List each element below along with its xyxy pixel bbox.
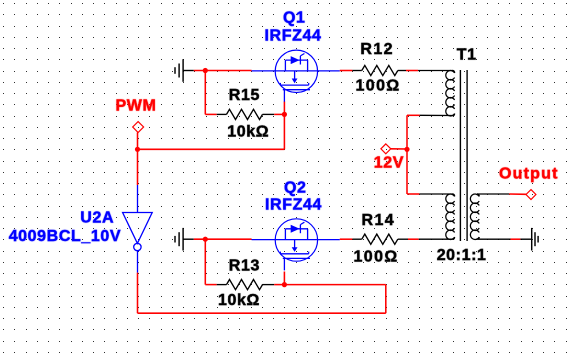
- transformer T1: [446, 70, 479, 241]
- ground (Q2 source): [175, 228, 194, 251]
- svg-text:Q2: Q2: [284, 179, 307, 196]
- wire: down to R15: [204, 71, 206, 115]
- wire: R14 to T1 winding2 bottom: [408, 238, 419, 240]
- resistor R14: [352, 234, 408, 244]
- svg-text:IRFZ44: IRFZ44: [265, 27, 322, 44]
- svg-text:100Ω: 100Ω: [354, 248, 399, 265]
- wire: R15 left: [205, 113, 216, 115]
- transistor Q2: [252, 219, 340, 271]
- wire: gate of Q1 to junction: [283, 102, 285, 115]
- wire: junction down to PWM row: [283, 114, 285, 149]
- resistor R12: [352, 65, 406, 75]
- svg-text:Q1: Q1: [283, 9, 306, 26]
- wire: ground to Q2 source: [194, 238, 252, 240]
- wire: 12V vertical: [406, 115, 408, 194]
- svg-text:PWM: PWM: [116, 97, 157, 114]
- wire: R13 row horizontal: [284, 284, 385, 286]
- lead: T1 winding2 top: [419, 193, 452, 195]
- wire: ground to Q1 source: [194, 70, 252, 72]
- svg-text:Output: Output: [499, 166, 559, 183]
- svg-text:U2A: U2A: [80, 209, 114, 226]
- wire: 12V row to winding 2: [407, 193, 419, 195]
- op-amp U2A (inverter 4009BCL_10V): [123, 213, 153, 273]
- connector: Output diamond: [526, 190, 536, 200]
- wire: secondary bottom to ground: [511, 238, 521, 240]
- svg-text:R14: R14: [362, 212, 396, 229]
- svg-text:20:1:1: 20:1:1: [437, 247, 487, 264]
- svg-text:R12: R12: [360, 41, 394, 58]
- junction: R15/gate node (284.4,114.4): [282, 112, 287, 117]
- lead: T1 primary bottom: [420, 114, 453, 116]
- svg-text:12V: 12V: [374, 154, 404, 171]
- lead: secondary top: [477, 193, 509, 195]
- transistor Q1: [252, 50, 340, 102]
- wire: bottom horizontal: [138, 312, 386, 314]
- wire: primary bottom red stub: [407, 114, 420, 116]
- wire: PWM down to inverter input: [137, 149, 139, 185]
- svg-text:IRFZ44: IRFZ44: [265, 196, 322, 213]
- connector: 12V diamond: [381, 144, 407, 154]
- wire: secondary to Output: [509, 193, 526, 195]
- junction: 12V tap (407,149.3): [404, 147, 409, 152]
- svg-text:10kΩ: 10kΩ: [218, 292, 260, 309]
- junction: PWM node (137.5,149.3): [135, 147, 140, 152]
- connector: PWM diamond: [133, 122, 144, 150]
- lead: T1 winding2 bottom: [419, 238, 453, 240]
- junction: R13/gate node (284.4,284.6): [282, 282, 287, 287]
- wire: Q2 gate to junction: [283, 272, 285, 285]
- svg-text:R13: R13: [229, 257, 260, 274]
- wire: R15 right: [274, 113, 284, 115]
- resistor R13: [217, 280, 275, 290]
- wire: up to R13 row: [385, 285, 387, 314]
- wire: R12 to T1 primary top: [406, 70, 418, 72]
- svg-text:4009BCL_10V: 4009BCL_10V: [9, 228, 121, 245]
- wire: R13 right: [274, 284, 284, 286]
- wire: R13 left: [205, 284, 216, 286]
- lead: secondary bottom: [477, 238, 510, 240]
- svg-text:10kΩ: 10kΩ: [227, 124, 269, 141]
- ground (secondary right): [520, 228, 538, 251]
- resistor R15: [217, 109, 275, 119]
- svg-text:100Ω: 100Ω: [356, 77, 401, 94]
- lead: inverter input: [137, 185, 139, 213]
- ground (top-left, Q1 source): [175, 59, 194, 82]
- junction: node at ground/R15 (205.3,70.5): [203, 68, 208, 73]
- wire: Q2 drain to R14: [340, 238, 353, 240]
- lead: T1 primary top: [418, 70, 453, 72]
- junction: node at ground/R13 (205.3,239.2): [203, 237, 208, 242]
- svg-text:R15: R15: [229, 87, 260, 104]
- wire: inverter output down: [137, 273, 139, 314]
- wire: Q1 drain to R12: [340, 70, 353, 72]
- wire: PWM row horizontal: [138, 148, 285, 150]
- wire: down to R13: [204, 239, 206, 284]
- svg-text:T1: T1: [457, 47, 477, 64]
